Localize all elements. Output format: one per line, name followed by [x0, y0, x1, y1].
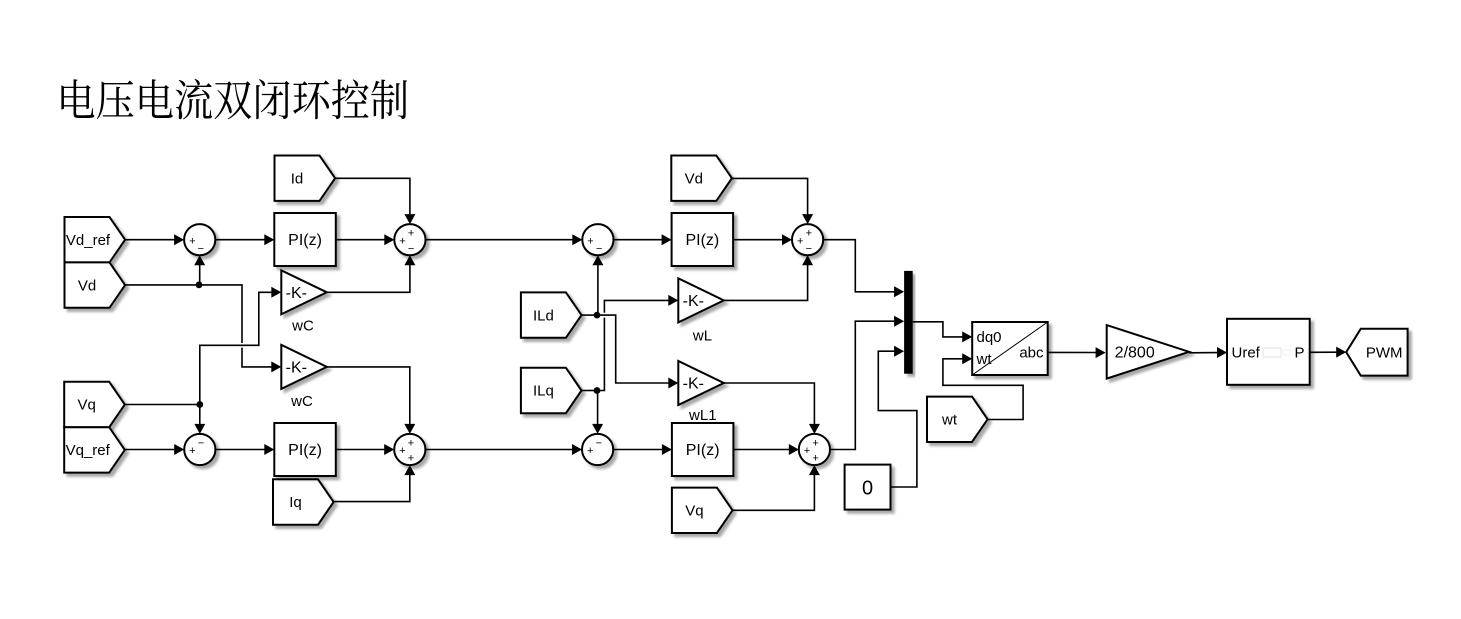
svg-text:+: +	[408, 228, 414, 240]
svg-text:PWM: PWM	[1366, 344, 1403, 361]
wire wC1 to S2	[327, 265, 410, 292]
input tag wt	[927, 397, 988, 442]
svg-text:wL1: wL1	[688, 407, 717, 424]
sum S6	[582, 434, 613, 465]
svg-text:+: +	[408, 453, 414, 465]
wire wL1 to S7	[724, 383, 815, 424]
svg-text:wC: wC	[291, 318, 314, 335]
svg-text:Uref: Uref	[1232, 345, 1261, 362]
svg-text:−: −	[198, 243, 204, 255]
sum S1	[184, 224, 215, 255]
svg-text:−: −	[198, 437, 204, 449]
sum S5	[792, 224, 823, 255]
svg-text:+: +	[408, 437, 414, 449]
wire Iq to S8	[334, 475, 410, 502]
PWM generator block U1	[1227, 319, 1310, 385]
svg-text:0: 0	[862, 477, 873, 499]
wire dq0 to gain 2/800	[1048, 351, 1096, 353]
svg-text:+: +	[806, 228, 812, 240]
svg-text:Vd_ref: Vd_ref	[66, 232, 111, 249]
wire node D to S6	[597, 391, 599, 425]
svg-text:−: −	[408, 243, 414, 255]
wire Vd mid to S5	[732, 178, 808, 214]
svg-text:Id: Id	[291, 170, 304, 187]
svg-text:Vq: Vq	[78, 397, 96, 414]
svg-text:PI(z): PI(z)	[685, 232, 719, 249]
svg-text:abc: abc	[1019, 344, 1044, 361]
wire S1 to PI1	[215, 239, 264, 241]
wire Vq to node B	[125, 404, 200, 406]
wire S4 to PI3	[614, 239, 662, 241]
wire Vq mid to S7	[732, 475, 814, 510]
node B (Vq)	[196, 401, 203, 408]
input tag Iq	[273, 479, 334, 524]
transform block dq0-abc	[972, 322, 1047, 375]
wire Vd to node A	[125, 284, 199, 286]
input tag Id	[275, 156, 336, 201]
gain wC1	[281, 270, 327, 314]
label wL	[692, 328, 712, 345]
wire Vq_ref to S3	[125, 449, 175, 451]
gain wC2	[281, 345, 327, 389]
svg-text:PI(z): PI(z)	[686, 442, 720, 459]
wire Vd_ref to S1	[125, 239, 175, 241]
sum S4	[582, 224, 613, 255]
wire wC2 to S8	[327, 367, 410, 424]
PI controller PI4	[672, 423, 734, 476]
wire S7 to mux in2	[830, 321, 894, 449]
svg-text:+: +	[189, 235, 195, 247]
svg-text:Vd: Vd	[78, 277, 96, 294]
wire mux to dq0 in1	[913, 322, 963, 337]
mux	[904, 271, 913, 374]
wire PI1 to S2	[336, 239, 385, 241]
wire S6 to PI4	[613, 449, 662, 451]
gain wL1	[678, 361, 724, 405]
svg-text:ILq: ILq	[533, 383, 554, 400]
input tag ILd	[521, 292, 582, 337]
sum S8	[394, 434, 425, 465]
PI controller PI3	[672, 213, 734, 266]
wire node A to wC2 b	[242, 348, 272, 367]
svg-text:P: P	[1294, 345, 1304, 362]
svg-text:wt: wt	[976, 351, 993, 368]
input tag Vq mid	[672, 488, 733, 533]
svg-text:-K-: -K-	[286, 285, 307, 302]
svg-text:wt: wt	[941, 412, 958, 429]
node C (ILd)	[594, 312, 601, 319]
wire node D to wL a	[597, 318, 604, 391]
svg-text:−: −	[596, 243, 602, 255]
svg-text:Iq: Iq	[289, 494, 302, 511]
label wC2	[290, 393, 313, 410]
wire ILd to node C	[582, 314, 598, 316]
wire node C to S4	[597, 265, 599, 315]
svg-text:-K-: -K-	[683, 293, 704, 310]
svg-text:+: +	[189, 445, 195, 457]
wire node C to wL1	[597, 315, 669, 383]
wire node B to wC1	[200, 292, 272, 404]
svg-text:wC: wC	[290, 393, 313, 410]
svg-text:+: +	[812, 453, 818, 465]
input tag ILq	[521, 368, 582, 413]
input tag Vd_ref	[65, 217, 126, 262]
output tag PWM	[1346, 329, 1407, 376]
svg-text:ILd: ILd	[533, 307, 554, 324]
PI controller PI1	[274, 213, 336, 266]
svg-text:+: +	[399, 235, 405, 247]
wire PI2 to S8	[336, 449, 385, 451]
wire S8 to S6	[425, 449, 572, 451]
svg-text:+: +	[587, 235, 593, 247]
svg-text:+: +	[399, 445, 405, 457]
node D (ILq)	[594, 387, 601, 394]
wire Id to S2	[335, 178, 410, 214]
svg-text:+: +	[804, 445, 810, 457]
svg-text:-K-: -K-	[286, 360, 307, 377]
node A (Vd)	[196, 282, 203, 289]
wire node B to S3	[199, 405, 201, 425]
sum S3	[184, 434, 215, 465]
wire node A to wC2	[199, 285, 242, 343]
svg-text:−: −	[806, 243, 812, 255]
svg-text:+: +	[797, 235, 803, 247]
svg-text:wL: wL	[692, 328, 712, 345]
svg-text:Vq_ref: Vq_ref	[66, 442, 111, 459]
wire 0 to mux in3	[878, 351, 917, 487]
wire PI3 to S5	[733, 239, 782, 241]
wire ILq to node D	[582, 390, 598, 392]
input tag Vd mid	[671, 156, 732, 201]
label wC1	[291, 318, 314, 335]
svg-text:PI(z): PI(z)	[288, 232, 322, 249]
input tag Vd	[65, 262, 126, 307]
gain 2/800	[1107, 325, 1189, 379]
label wL1	[688, 407, 717, 424]
input tag Vq	[64, 382, 125, 427]
sum S7	[799, 434, 830, 465]
wire S5 to mux in1	[823, 240, 894, 292]
gain wL	[678, 278, 724, 322]
constant 0	[845, 465, 891, 510]
wire node D to wL b	[604, 300, 668, 312]
svg-text:Vq: Vq	[685, 503, 703, 520]
svg-text:dq0: dq0	[977, 329, 1002, 346]
svg-text:Vd: Vd	[685, 170, 703, 187]
svg-text:PI(z): PI(z)	[288, 442, 322, 459]
title 电压电流双闭环控制	[61, 79, 407, 119]
wire S3 to PI2	[215, 449, 264, 451]
wire PI4 to S7	[733, 449, 789, 451]
svg-text:-K-: -K-	[683, 376, 704, 393]
wire wL to S5	[724, 265, 808, 300]
sum S2	[394, 224, 425, 255]
wire PWM gen to PWM tag	[1310, 351, 1337, 353]
svg-text:+: +	[812, 437, 818, 449]
input tag Vq_ref	[64, 427, 125, 472]
PI controller PI2	[274, 423, 336, 476]
svg-text:−: −	[596, 437, 602, 449]
wire gain to PWM gen	[1189, 352, 1217, 354]
wire S2 to S4	[426, 239, 573, 241]
wire wt to dq0 in2	[943, 359, 1023, 420]
wire node A to S1	[199, 265, 201, 285]
svg-text:+: +	[587, 445, 593, 457]
svg-text:2/800: 2/800	[1115, 344, 1155, 361]
